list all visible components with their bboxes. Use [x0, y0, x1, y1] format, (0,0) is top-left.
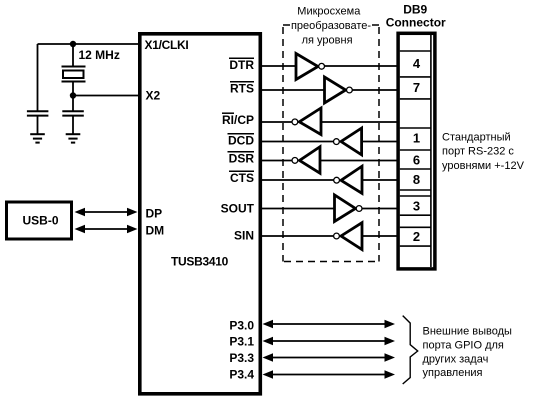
svg-text:RTS: RTS [230, 81, 254, 95]
svg-text:6: 6 [413, 152, 420, 167]
svg-text:DB9: DB9 [403, 2, 427, 16]
svg-text:3: 3 [413, 198, 420, 213]
svg-text:8: 8 [413, 172, 420, 187]
svg-text:ля уровня: ля уровня [302, 35, 353, 47]
svg-text:DTR: DTR [229, 58, 254, 72]
svg-text:порта GPIO для: порта GPIO для [423, 339, 504, 351]
svg-text:4: 4 [413, 56, 421, 71]
svg-text:преобразовате-: преобразовате- [291, 20, 371, 32]
svg-text:USB-0: USB-0 [23, 214, 59, 228]
svg-text:порт RS-232 с: порт RS-232 с [442, 146, 514, 158]
svg-text:SIN: SIN [234, 228, 254, 242]
svg-text:Стандартный: Стандартный [442, 132, 511, 144]
svg-text:Внешние выводы: Внешние выводы [423, 326, 513, 338]
svg-text:7: 7 [413, 80, 420, 95]
svg-text:RI/CP: RI/CP [222, 113, 254, 127]
svg-text:12 MHz: 12 MHz [79, 48, 120, 62]
svg-text:Микросхема: Микросхема [297, 5, 361, 17]
svg-text:DCD: DCD [228, 133, 254, 147]
svg-text:TUSB3410: TUSB3410 [171, 255, 229, 269]
svg-text:P3.0: P3.0 [229, 318, 254, 332]
svg-text:уровнями +-12V: уровнями +-12V [442, 160, 525, 172]
svg-text:1: 1 [413, 130, 420, 145]
svg-text:управления: управления [423, 367, 483, 379]
svg-text:CTS: CTS [230, 171, 254, 185]
svg-text:P3.4: P3.4 [229, 367, 254, 381]
svg-text:DP: DP [146, 207, 163, 221]
svg-text:P3.1: P3.1 [229, 335, 254, 349]
svg-text:2: 2 [413, 229, 420, 244]
svg-text:DSR: DSR [229, 151, 255, 165]
svg-text:X1/CLKI: X1/CLKI [145, 38, 189, 52]
svg-text:других задач: других задач [423, 353, 489, 365]
svg-text:SOUT: SOUT [221, 201, 255, 215]
svg-text:Connector: Connector [386, 16, 446, 30]
svg-text:DM: DM [146, 224, 165, 238]
svg-text:P3.3: P3.3 [229, 351, 254, 365]
svg-text:X2: X2 [146, 89, 161, 103]
